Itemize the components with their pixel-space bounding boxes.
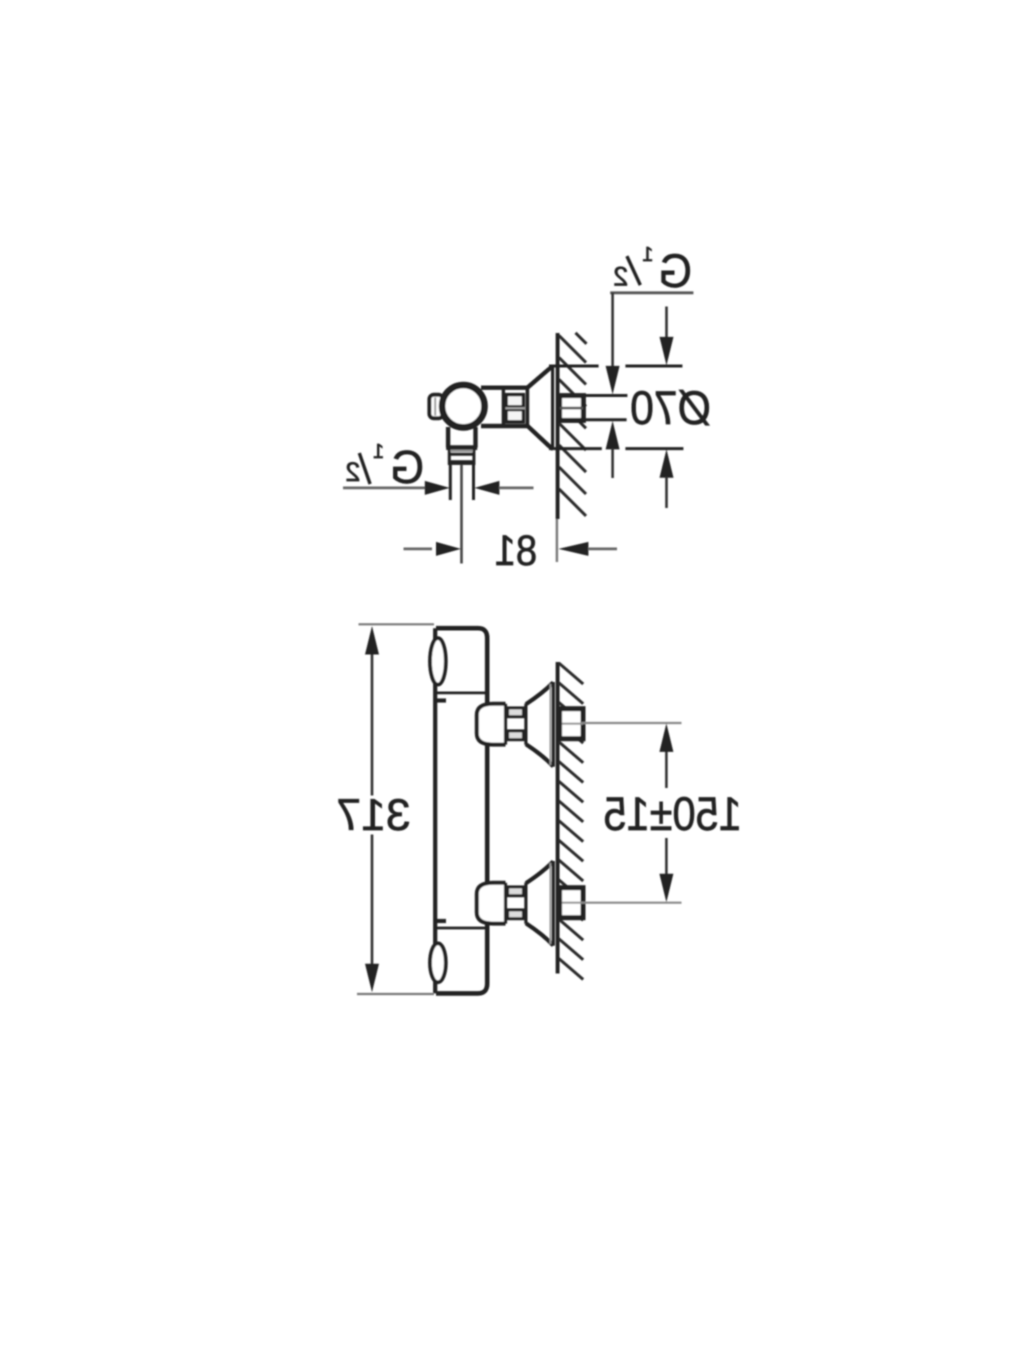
svg-text:81: 81 [495,526,538,575]
svg-text:1: 1 [642,244,653,266]
wall hatching (front view) [559,663,583,980]
outlet neck (top view) [446,427,450,448]
escutcheon flange (front view) [526,861,553,883]
svg-text:317: 317 [336,791,410,840]
dimension 150+/-15 line and arrows [665,751,668,788]
label 317 [336,791,410,840]
outlet pipe G1/2 (top view) [449,465,452,500]
flange face (top view) [551,366,554,450]
threaded section with ribs [524,704,527,745]
dimension O70 extension lines [549,365,599,368]
wall nipple [560,888,583,918]
dimension 81 [404,548,433,551]
label 150+/-15 [603,788,741,840]
temperature handle knob (top view) [442,385,484,427]
dimension O70 arrows [665,307,668,340]
label G1/2 (inlet) [658,244,692,297]
hose union nut (top view) [448,448,451,465]
svg-text:1: 1 [373,441,384,463]
threaded section with ribs [524,883,527,924]
wall section line (top view) [556,333,560,519]
escutcheon flange cone (top view) [527,367,553,388]
label 81 [495,526,538,575]
mixer body cylinder (top view) [481,386,528,390]
dimension G1/2 (inlet) leader [610,291,693,294]
svg-text:2: 2 [345,457,360,487]
body end cap ellipse (bottom) [430,943,446,982]
escutcheon flange (front view) [526,682,553,704]
G1/2 wall connection nipple (top view) [560,396,584,421]
outlet centre line [460,465,463,564]
thermostat body (front view) [436,628,487,993]
union nut [477,883,506,924]
svg-text:G: G [390,441,424,493]
body section lines [437,692,487,695]
dimension 150+/-15 extension lines [581,722,682,724]
label O70 [630,381,711,434]
body end cap ellipse (top) [430,638,446,684]
svg-text:Ø70: Ø70 [630,381,711,434]
union nut [477,704,506,745]
union nut with thread ribs (top view) [526,387,530,426]
handle end cap (top view) [429,395,443,419]
dimension 317 extension lines [359,623,435,625]
wall nipple [560,709,583,739]
svg-text:G: G [658,244,692,297]
svg-text:2: 2 [613,261,628,291]
wall hatching (top view) [559,333,587,516]
dimension 317 line and arrows [371,653,374,796]
dimension G1/2 (outlet) leader [343,486,426,489]
wall section line (front view) [556,662,560,974]
svg-text:150±15: 150±15 [603,788,741,840]
label G1/2 (outlet) [390,441,424,493]
nipple edge extension lines [583,394,627,397]
